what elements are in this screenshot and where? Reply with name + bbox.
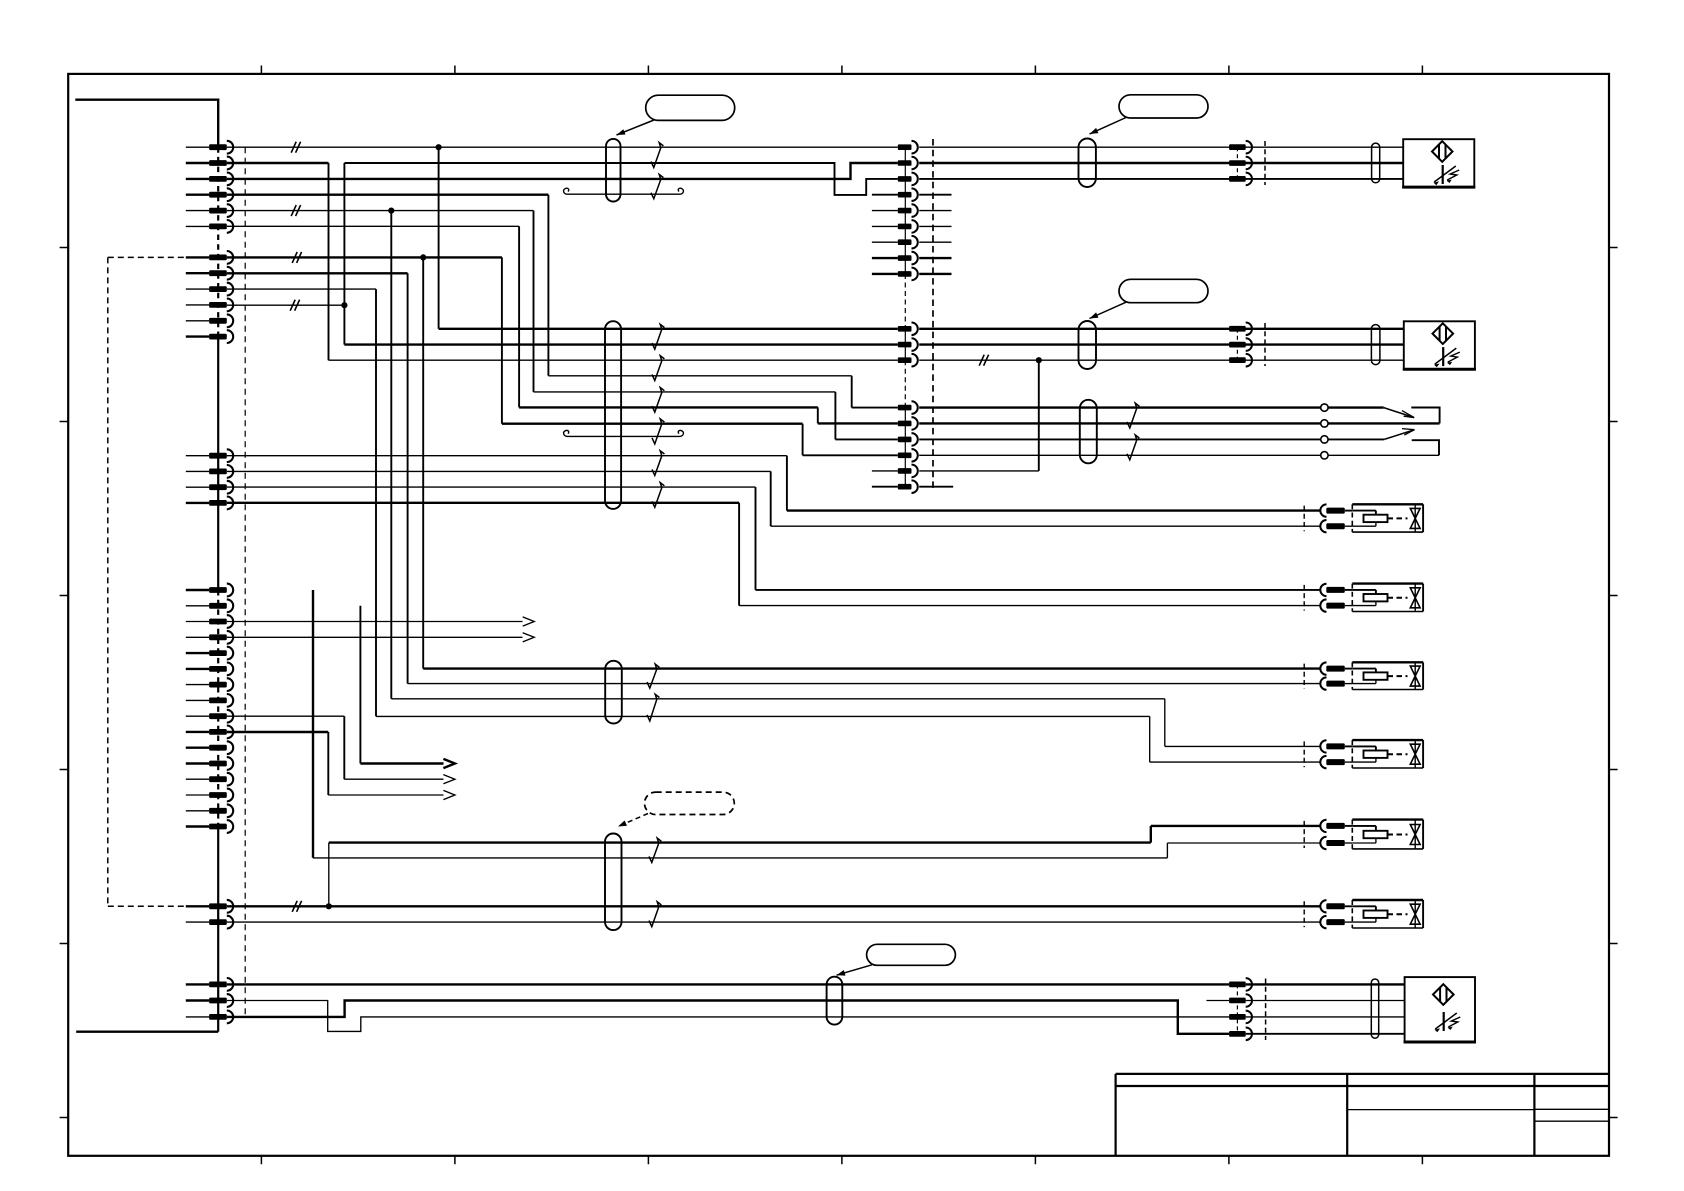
- inline connector X3 pins 1-3: [898, 326, 912, 332]
- wire pin14 to valve Y1 b: [227, 470, 771, 472]
- solenoid valve Y3: [1303, 664, 1305, 689]
- wire pin33 pair to valve Y5 a: [326, 903, 332, 909]
- photoelectric sensor B2: [1404, 321, 1475, 369]
- cable 2 count marks: [652, 324, 664, 349]
- leader arrow sensor B3: [837, 965, 873, 975]
- connector X6 pins: [1229, 326, 1246, 332]
- pair mark wire 1: [291, 142, 300, 153]
- solenoid valve Y6: [1303, 901, 1305, 927]
- wire pin7 drop to X4-4: [227, 256, 502, 258]
- wire pin36 swap to B3 black: [227, 1001, 1229, 1032]
- connector X6 mating dashed line: [1264, 323, 1266, 366]
- manifold cable count marks: [1127, 403, 1139, 428]
- wire pin37 swap to B3 blue: [227, 1001, 1229, 1034]
- wire branch to X3-1: [438, 147, 440, 329]
- wire pin9 drop: [375, 289, 377, 716]
- cable 1 shield at device end: [1079, 139, 1096, 188]
- X2 unused pin stubs left: [872, 194, 898, 196]
- cable 2 shield at device end: [1079, 321, 1097, 369]
- wire pin17grpD to valve Y5 b: [312, 590, 314, 858]
- inline connector mating dashed line: [932, 139, 934, 492]
- wire pin8 left segment: [227, 272, 408, 274]
- sensor B3 gland: [1371, 979, 1378, 1038]
- inline connector X4 pins 1-6: [898, 405, 912, 411]
- valve cable count marks: [647, 664, 659, 688]
- wire pin5 branch run: [391, 698, 1165, 700]
- wire pin9 left segment: [227, 288, 376, 290]
- photoelectric sensor B1: [1403, 139, 1474, 187]
- callout balloon sensor B2: [1119, 279, 1208, 302]
- wire X3-2 to sensor B2 blue: [919, 343, 1404, 345]
- cable 1 count marks: [651, 143, 663, 168]
- splice rings: [1321, 404, 1328, 411]
- wire pin35 to sensor B3 brown: [227, 983, 1229, 985]
- title block: [1116, 1074, 1609, 1156]
- branch to X4-5: [1038, 360, 1040, 471]
- pair mark sensor B2 wire: [979, 355, 988, 366]
- harness trunk bottom corner: [76, 1030, 218, 1032]
- wire pin13 to valve Y1 a: [227, 455, 787, 457]
- valve cable 5-6 count marks: [649, 838, 661, 862]
- valve cable 5-6 shield: [605, 834, 622, 931]
- leader arrow cable 1: [617, 120, 655, 135]
- connector X1 group B pins 7-12: [186, 256, 209, 258]
- wire pin33 to valve Y6 a: [227, 905, 1320, 907]
- X2 unused pin stubs right: [919, 194, 951, 196]
- photoelectric sensor B3: [1405, 977, 1475, 1042]
- spare lead arrows upper: [227, 621, 523, 623]
- connector X5 mating dashed line: [1264, 141, 1266, 185]
- connector X1 group D pins 17-32: [186, 589, 209, 591]
- wire pin6 drop to X4-2: [227, 225, 519, 227]
- wire pin18 drop to spare lead 1: [359, 606, 361, 764]
- junction node sensor B2 wire: [1036, 357, 1042, 363]
- solenoid valve Y2: [1303, 585, 1305, 611]
- connector housing dashed line: [244, 147, 246, 1017]
- leader arrow sensor B2: [1090, 302, 1127, 318]
- wire X3-3 to sensor B2 black: [919, 359, 1404, 361]
- junction node wire1: [436, 144, 442, 150]
- solenoid valve Y4: [1303, 741, 1305, 767]
- wire X3-2 riser: [343, 163, 345, 345]
- connector X5 pins: [1229, 144, 1246, 150]
- wire pin2 drop: [328, 163, 330, 360]
- sensor B3 wires to device: [1246, 983, 1405, 985]
- wire to X3-2 lower run: [344, 343, 897, 345]
- solenoid valve Y1: [1303, 506, 1305, 532]
- valve cable shield: [605, 661, 622, 724]
- harness trunk top corner: [75, 100, 218, 148]
- lead 3 arrow into receptacle: [1384, 430, 1414, 440]
- valve manifold cable shield: [1080, 400, 1097, 464]
- wire X4-1 to lead 1: [919, 406, 1383, 408]
- wire pin17 drop to X4-1: [548, 375, 851, 377]
- sensor B1 gland: [1372, 143, 1380, 183]
- dashed return loop: [107, 257, 109, 906]
- receptacle bottom: [1412, 440, 1439, 455]
- wire pin8 drop: [407, 273, 409, 683]
- receptacle top: [1411, 408, 1439, 424]
- leader arrow sensor B1: [1090, 118, 1127, 135]
- wire pin25 drop to spare lead 2: [343, 716, 345, 779]
- connector X1 group A pins 1-6: [186, 146, 209, 148]
- callout balloon sensor B3: [867, 944, 956, 965]
- callout balloon cable 1: [646, 95, 735, 120]
- connector X7 pins: [1229, 982, 1246, 988]
- wire pin1 to sensor B1 brown: [227, 146, 898, 148]
- callout balloon valve cable dashed: [645, 792, 735, 814]
- wire pin7 branch drop: [422, 257, 424, 668]
- sensor B3 spare stub: [1206, 1000, 1229, 1002]
- wire pin5 branch drop: [390, 211, 392, 699]
- wire pin10 left segment: [227, 304, 345, 306]
- inline connector center line: [904, 147, 906, 274]
- wire X3-1 to sensor B2 brown: [919, 328, 1404, 330]
- wire to X3-3 lower run: [329, 359, 898, 361]
- shield drain pigtail cable 1: [564, 188, 578, 194]
- wire pin5 drop to X4-3: [227, 210, 534, 212]
- solenoid valve Y5: [1303, 821, 1305, 848]
- connector trunk line X1 (dashed through plug groups): [217, 147, 219, 337]
- wire pin2 left segment: [227, 162, 329, 164]
- cable 1 shield: [606, 139, 621, 202]
- wire X4-2 to lead 2: [919, 422, 1439, 424]
- cable 2 shield: [605, 321, 621, 509]
- connector X1 group E pins 33-34: [186, 905, 209, 907]
- wire pin16 to valve Y2 b: [227, 502, 739, 504]
- X4 pin5 right segment: [919, 470, 1039, 472]
- junction node on riser: [341, 302, 347, 308]
- wire pin3 to X2-2 swap: [227, 163, 898, 179]
- wire pin15 to valve Y2 a: [227, 486, 756, 488]
- wire X2-3 swap segment: [344, 163, 897, 195]
- connector X7 mating dashed line: [1265, 979, 1267, 1041]
- sensor B3 cable shield: [827, 977, 843, 1025]
- wire to X3-1 lower run: [439, 328, 898, 330]
- wire X4-1 left stub: [852, 407, 898, 409]
- shield drain pigtail cable 2: [564, 430, 578, 436]
- lead 1 arrow into receptacle: [1384, 408, 1415, 418]
- connector X1 group C pins 13-16: [186, 455, 209, 457]
- wire X4-3 to lead 3: [919, 438, 1384, 440]
- wire pin34 to valve Y6 b: [227, 921, 1320, 923]
- connector X1 group F pins 35-37: [186, 983, 209, 985]
- wire pin9 run to valve Y4 b: [376, 715, 1150, 717]
- leader arrow valve cable: [618, 814, 648, 827]
- wire pin7 branch to valve Y3 a: [423, 667, 1320, 669]
- sensor B2 gland: [1371, 325, 1380, 365]
- wire pin8 to valve Y3 b: [408, 683, 1320, 685]
- inline connector X2 pins 1-9: [898, 144, 912, 150]
- wire X2-2 to sensor B1 blue: [919, 162, 1403, 164]
- callout balloon sensor B1: [1119, 95, 1208, 118]
- wire pin25 to valve Y4 a: [227, 715, 344, 717]
- X4 pin5-6 stubs: [872, 470, 898, 472]
- wire X4-4 to lead 4: [919, 454, 1439, 456]
- wire pin26 drop to spare lead 3: [227, 731, 328, 733]
- wire X2-3 to sensor B1 black: [919, 178, 1403, 180]
